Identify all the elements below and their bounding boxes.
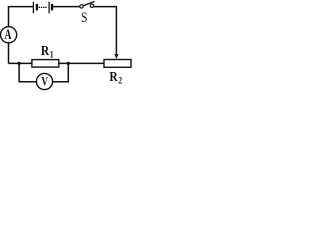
switch S contact right <box>90 4 93 7</box>
battery short thick plate 1 <box>36 4 38 10</box>
wire voltmeter right branch <box>52 63 68 81</box>
svg-text:R: R <box>41 43 50 58</box>
battery long plate 1 <box>32 2 34 14</box>
switch S blade <box>83 1 95 5</box>
resistor R1 box <box>32 60 59 68</box>
label V <box>41 75 48 89</box>
label R2 <box>109 69 122 86</box>
rheostat R2 box <box>104 60 131 68</box>
voltmeter V circle <box>36 73 52 89</box>
wire voltmeter left branch <box>19 63 36 81</box>
wire switch right contact to top-right corner, down to rheostat arrow <box>94 7 117 55</box>
label S <box>81 9 87 26</box>
label A <box>4 26 11 42</box>
battery long plate 2 <box>48 2 50 14</box>
label R1 <box>41 43 54 60</box>
junction node right (voltmeter tap) <box>67 62 70 65</box>
wire battery right to switch left contact <box>53 6 80 8</box>
svg-text:S: S <box>81 9 87 26</box>
svg-text:R: R <box>109 69 118 84</box>
wire bottom main: ammeter leg to R1 <box>9 62 32 64</box>
wire ammeter bottom down to bottom main wire <box>8 43 10 64</box>
junction node left (voltmeter tap) <box>18 62 21 65</box>
svg-text:1: 1 <box>50 50 54 60</box>
switch S contact left <box>80 5 83 8</box>
battery short thick plate 2 <box>51 4 53 10</box>
wire top-left: battery to left corner and down to ammeter <box>9 7 34 27</box>
rheostat R2 wiper arrow <box>114 54 118 59</box>
svg-text:V: V <box>41 75 48 89</box>
svg-text:A: A <box>4 26 11 42</box>
svg-text:2: 2 <box>118 76 122 86</box>
battery dots <box>39 7 47 8</box>
wire R1 right to R2 left terminal <box>59 62 104 64</box>
ammeter A1 circle <box>1 27 17 43</box>
